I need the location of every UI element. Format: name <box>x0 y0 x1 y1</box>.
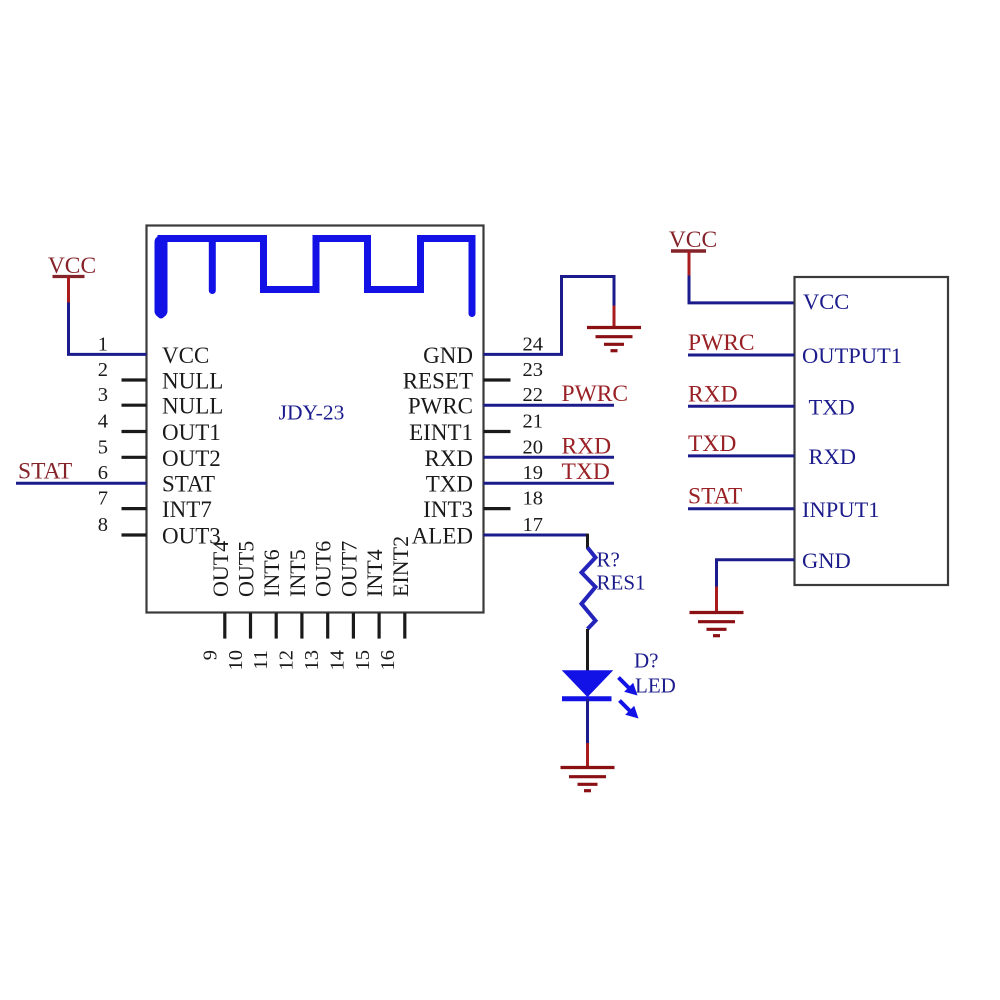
pin 4 wire <box>122 430 147 433</box>
svg-text:OUT5: OUT5 <box>234 541 259 597</box>
bottom pin 13 wire <box>326 613 329 639</box>
svg-text:VCC: VCC <box>803 289 849 314</box>
wire pin 17 to resistor <box>586 534 589 549</box>
svg-text:4: 4 <box>98 411 108 433</box>
svg-text:12: 12 <box>276 650 298 671</box>
svg-text:R?: R? <box>597 548 620 572</box>
pin 20 wire <box>484 456 615 459</box>
wire VCC to pin 1 <box>69 303 147 355</box>
svg-text:10: 10 <box>225 650 247 671</box>
antenna stub <box>209 240 216 291</box>
svg-text:13: 13 <box>301 650 323 671</box>
bottom pin 9 wire <box>223 613 226 639</box>
svg-text:PWRC: PWRC <box>408 394 473 419</box>
ground symbol (LED) <box>561 768 615 791</box>
svg-text:22: 22 <box>523 384 544 406</box>
bottom pin 10 wire <box>249 613 252 639</box>
resistor R? RES1 <box>582 548 596 630</box>
svg-text:2: 2 <box>98 359 108 381</box>
ground stub (connector) <box>715 587 718 613</box>
svg-text:TXD: TXD <box>688 431 736 457</box>
wire STAT to pin 6 <box>16 482 147 485</box>
svg-text:14: 14 <box>326 650 348 671</box>
svg-text:3: 3 <box>98 384 108 406</box>
ground stub (pin 24) <box>613 306 616 328</box>
svg-text:20: 20 <box>523 436 544 458</box>
svg-text:INPUT1: INPUT1 <box>802 497 880 522</box>
wire LED to ground <box>586 699 589 743</box>
svg-text:EINT2: EINT2 <box>388 536 413 597</box>
pin 5 wire <box>122 456 147 459</box>
svg-text:STAT: STAT <box>18 459 72 485</box>
svg-text:GND: GND <box>423 343 473 368</box>
svg-text:9: 9 <box>199 650 221 660</box>
svg-text:RXD: RXD <box>809 444 857 469</box>
svg-text:INT3: INT3 <box>423 497 473 522</box>
wire TXD to RXD <box>688 454 795 457</box>
pin 18 wire <box>484 507 511 510</box>
svg-text:OUT4: OUT4 <box>208 541 233 597</box>
ground stub (LED) <box>586 743 589 767</box>
antenna trace <box>161 239 472 316</box>
svg-text:23: 23 <box>523 359 544 381</box>
svg-text:21: 21 <box>523 411 544 433</box>
pin 8 wire <box>122 533 147 536</box>
svg-text:INT6: INT6 <box>259 549 284 597</box>
svg-text:LED: LED <box>635 674 676 698</box>
wire resistor to LED <box>586 629 589 671</box>
svg-text:24: 24 <box>523 333 544 355</box>
LED light arrow 1 <box>619 678 638 696</box>
svg-text:GND: GND <box>802 548 851 573</box>
svg-text:5: 5 <box>98 436 108 458</box>
svg-text:INT5: INT5 <box>285 549 310 597</box>
svg-text:VCC: VCC <box>669 227 717 253</box>
pin 2 wire <box>122 378 147 381</box>
pin 19 wire <box>484 482 615 485</box>
svg-text:19: 19 <box>523 462 544 484</box>
svg-text:PWRC: PWRC <box>562 381 629 407</box>
power symbol VCC (right) <box>669 227 717 277</box>
svg-text:7: 7 <box>98 488 108 510</box>
svg-text:RXD: RXD <box>562 433 612 459</box>
bottom pin 14 wire <box>352 613 355 639</box>
svg-text:INT4: INT4 <box>362 549 387 597</box>
svg-text:OUT2: OUT2 <box>162 446 221 471</box>
svg-text:ALED: ALED <box>412 524 473 549</box>
svg-text:RXD: RXD <box>424 446 473 471</box>
svg-text:18: 18 <box>523 488 544 510</box>
svg-text:11: 11 <box>250 650 272 670</box>
bottom pin 12 wire <box>300 613 303 639</box>
pin 17 wire <box>484 534 588 537</box>
pin 21 wire <box>484 430 511 433</box>
svg-text:OUT1: OUT1 <box>162 420 221 445</box>
pin 22 wire <box>484 404 615 407</box>
svg-text:NULL: NULL <box>162 369 223 394</box>
antenna feed bar <box>155 242 168 311</box>
svg-text:RESET: RESET <box>403 369 473 394</box>
pin 7 wire <box>122 507 147 510</box>
ground symbol (pin 24) <box>587 328 641 351</box>
svg-text:EINT1: EINT1 <box>409 420 473 445</box>
svg-text:6: 6 <box>98 462 108 484</box>
svg-text:STAT: STAT <box>162 472 215 497</box>
wire VCC to connector <box>689 276 795 303</box>
ground symbol (connector) <box>690 613 744 636</box>
svg-text:15: 15 <box>352 650 374 671</box>
IC U1 JDY-23 body <box>147 226 484 613</box>
svg-text:OUT7: OUT7 <box>336 541 361 597</box>
svg-text:OUT6: OUT6 <box>311 541 336 597</box>
svg-text:TXD: TXD <box>809 395 855 420</box>
pin 3 wire <box>122 404 147 407</box>
svg-text:NULL: NULL <box>162 394 223 419</box>
svg-text:TXD: TXD <box>426 472 473 497</box>
svg-text:TXD: TXD <box>562 459 610 485</box>
pin 24 wire to ground <box>484 277 615 355</box>
svg-text:16: 16 <box>377 650 399 671</box>
wire GND to ground <box>717 560 795 588</box>
wire STAT to INPUT1 <box>688 507 795 510</box>
svg-text:8: 8 <box>98 514 108 536</box>
svg-text:STAT: STAT <box>688 484 742 510</box>
wire RXD to TXD <box>688 405 795 408</box>
LED cathode bar <box>562 696 612 701</box>
svg-text:PWRC: PWRC <box>688 330 755 356</box>
power symbol VCC (left) <box>48 253 96 303</box>
bottom pin 16 wire <box>403 613 406 639</box>
svg-text:VCC: VCC <box>162 343 209 368</box>
svg-text:17: 17 <box>523 514 544 536</box>
LED D? anode triangle <box>564 671 612 696</box>
pin 23 wire <box>484 378 511 381</box>
svg-text:RES1: RES1 <box>597 571 646 595</box>
svg-text:JDY-23: JDY-23 <box>279 401 345 425</box>
wire PWRC to OUTPUT1 <box>688 354 795 357</box>
connector J1 body <box>795 277 949 585</box>
svg-text:RXD: RXD <box>688 381 738 407</box>
svg-text:1: 1 <box>98 333 108 355</box>
svg-text:INT7: INT7 <box>162 497 212 522</box>
LED light arrow 2 <box>620 701 639 719</box>
bottom pin 11 wire <box>275 613 278 639</box>
svg-text:OUTPUT1: OUTPUT1 <box>802 343 902 368</box>
bottom pin 15 wire <box>378 613 381 639</box>
svg-text:D?: D? <box>634 649 659 673</box>
